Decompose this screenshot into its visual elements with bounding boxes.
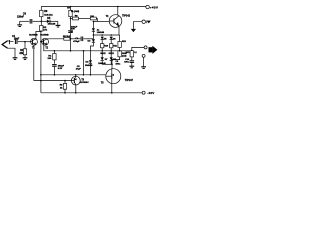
capacitor C7 <box>68 31 73 33</box>
junction chain-mid wire <box>90 74 92 76</box>
diode D5 <box>47 20 50 23</box>
transistor T3 <box>71 76 80 85</box>
wire input to C1 <box>8 40 14 43</box>
svg-text:10µF: 10µF <box>14 39 20 41</box>
wire R4 to C2 <box>53 60 55 64</box>
junction node A <box>41 21 43 23</box>
diode D7 <box>110 37 113 40</box>
wire mid node T5 base <box>41 74 106 76</box>
wire lower emitters join <box>102 63 112 65</box>
capacitor C2 <box>52 65 57 67</box>
junction rail-T4-collector <box>117 6 119 8</box>
wire T1 emitter feedback down <box>34 45 36 81</box>
wire R13a top <box>119 35 121 42</box>
wire node to R4 <box>53 51 55 54</box>
capacitor C4 <box>81 37 83 42</box>
svg-text:R12: R12 <box>122 41 127 43</box>
resistor R6 <box>63 83 66 89</box>
wire R1 to ground <box>24 55 26 58</box>
diode D9 <box>110 57 113 60</box>
wire feedback to T3 base <box>34 80 72 82</box>
resistor R7 <box>69 10 72 16</box>
ground <box>23 58 28 60</box>
junction emitter top <box>111 59 113 61</box>
wire to R1 <box>24 42 26 49</box>
svg-text:6.3V: 6.3V <box>58 68 63 70</box>
junction rail T5 <box>111 92 113 94</box>
wire D7 to R12 <box>110 40 112 44</box>
svg-text:D2: D2 <box>88 40 92 42</box>
svg-text:100: 100 <box>48 58 52 60</box>
terminal output <box>144 46 147 49</box>
wire R8 to R10 <box>79 18 91 20</box>
wire gnd terminal <box>133 22 142 29</box>
resistor R10 <box>90 17 96 20</box>
svg-text:1N4148: 1N4148 <box>97 31 105 34</box>
ground chassis <box>131 29 136 32</box>
svg-text:C6: C6 <box>70 31 74 33</box>
junction R6 <box>64 80 66 82</box>
resistor R14 / L1 <box>130 51 133 57</box>
wire R13a to out <box>119 48 121 51</box>
wire R11 to out <box>101 48 103 51</box>
terminal output return <box>142 54 145 57</box>
wire R9 to node A <box>40 17 42 26</box>
svg-text:-40V: -40V <box>147 91 154 95</box>
wire R5 to C4 <box>70 38 80 40</box>
wire node B to R8 <box>71 18 73 20</box>
junction T3 emitter-mid wire <box>75 74 77 76</box>
wire R6 to rail <box>64 89 66 93</box>
wire C8 to D5 <box>33 20 47 22</box>
svg-text:R5 2k2: R5 2k2 <box>63 36 71 38</box>
wire T5 collector to rail <box>111 84 113 93</box>
resistor R4 <box>53 54 56 60</box>
junction T1 collector node <box>40 31 42 33</box>
wire R3 T2-base vertical down to rail <box>40 31 42 93</box>
terminal GND <box>142 20 145 23</box>
wire to output terminal <box>132 47 144 50</box>
svg-text:0Ω22: 0Ω22 <box>100 53 106 55</box>
capacitor C8 <box>30 19 32 24</box>
junction R13b top <box>119 50 121 52</box>
svg-text:470pF: 470pF <box>73 40 80 43</box>
input connector pin <box>9 40 11 44</box>
junction node B <box>70 18 72 20</box>
junction rail R6 <box>64 92 66 94</box>
wire T1 collector <box>36 32 41 39</box>
wire C7 to node R5 <box>70 33 72 39</box>
svg-text:47k: 47k <box>43 28 47 31</box>
wire to R6 <box>64 81 66 84</box>
transistor T4 <box>109 15 122 28</box>
wire D3 to T5 base wire <box>89 64 91 75</box>
diode D3 <box>89 60 92 63</box>
wire gnd to C8 <box>20 20 30 22</box>
wire D5 right <box>50 20 58 22</box>
junction C2-mid wire <box>54 74 56 76</box>
wire T4 emitter down <box>118 26 120 35</box>
wire R10 to T4 base <box>96 19 97 22</box>
svg-text:T4: T4 <box>106 15 109 18</box>
svg-text:R10: R10 <box>104 45 109 47</box>
transistor T2 <box>42 38 49 45</box>
wire T5 emitter <box>111 60 113 69</box>
junction vertical-mid wire <box>40 74 42 76</box>
wire top +40V rail <box>41 6 146 8</box>
resistor R11 <box>101 44 104 48</box>
ground <box>129 66 134 68</box>
wire terminal to ground <box>143 57 145 66</box>
resistor R8 <box>73 17 79 20</box>
wire out to D8 <box>101 51 103 58</box>
diode D2 <box>92 39 95 42</box>
resistor R9 <box>40 10 43 16</box>
ground <box>141 67 146 69</box>
transistor T1 <box>31 38 38 45</box>
svg-text:1k: 1k <box>60 87 63 89</box>
svg-text:D6: D6 <box>113 39 117 41</box>
resistor R13a <box>118 42 121 48</box>
junction out1 <box>101 50 103 52</box>
wire C4 to bias chain <box>84 38 94 40</box>
output arrow <box>149 46 158 54</box>
junction R5-C7 <box>70 38 72 40</box>
wire bottom -40V rail <box>41 92 142 94</box>
svg-text:100n: 100n <box>116 64 121 66</box>
wire T4 collector to rail <box>118 7 119 16</box>
wire C1 to T1 base <box>18 41 31 43</box>
wire T2 emitter <box>44 45 55 51</box>
diode D8 <box>101 57 104 60</box>
wire output node <box>54 50 131 52</box>
wire T2 collector to R5 <box>47 38 64 40</box>
svg-text:10Ω: 10Ω <box>126 52 130 54</box>
svg-text:220nF: 220nF <box>17 16 24 19</box>
svg-text:100n: 100n <box>124 62 129 64</box>
svg-text:(1Ω): (1Ω) <box>122 56 127 58</box>
junction bootstrap top <box>83 50 85 52</box>
wire R7 to C7 <box>70 17 72 30</box>
junction bootstrap bottom <box>83 74 85 76</box>
resistor R12 <box>110 44 113 48</box>
junction chain-emitter-wire <box>93 34 95 36</box>
svg-text:R9: R9 <box>44 11 48 13</box>
wire to R13a <box>118 34 121 36</box>
diode D6 <box>101 37 104 40</box>
svg-text:D5: D5 <box>104 39 108 41</box>
wire T3 emitter <box>75 75 77 77</box>
wire D8 down <box>101 61 103 64</box>
svg-text:T2: T2 <box>45 48 48 50</box>
wire chain to D1 <box>92 22 94 29</box>
wire out to D9 <box>110 51 112 58</box>
svg-text:BC550B: BC550B <box>40 35 49 37</box>
wire D6 to R11 <box>101 40 103 44</box>
wire emitter node top <box>93 34 119 36</box>
ground <box>56 25 61 27</box>
junction rail-R7 <box>70 6 72 8</box>
svg-text:D7: D7 <box>105 59 109 61</box>
junction out3 <box>119 50 121 52</box>
junction input-R1 <box>24 41 26 43</box>
junction C6-output <box>70 50 72 52</box>
svg-text:2k (1k5): 2k (1k5) <box>71 11 79 13</box>
junction D6 <box>101 34 103 36</box>
ground <box>13 58 18 60</box>
junction T2e-R4 <box>54 50 56 52</box>
wire D9 down <box>110 61 112 64</box>
svg-text:D3: D3 <box>86 62 90 64</box>
wire bootstrap out to mid <box>83 51 85 75</box>
diode D1 <box>92 28 95 31</box>
svg-text:+40V: +40V <box>150 6 158 10</box>
wire C10 to ground <box>131 63 133 67</box>
wire rail to R7 <box>70 7 72 11</box>
wire down to ground <box>57 21 59 25</box>
transistor T5 <box>106 69 121 84</box>
terminal +40V <box>146 5 149 8</box>
wire T3 collector to rail <box>75 85 77 93</box>
ground <box>17 25 22 27</box>
wire R13b to T5 emitter <box>112 57 120 60</box>
resistor R1 <box>23 49 26 55</box>
junction D7 <box>110 34 112 36</box>
svg-text:L1: L1 <box>134 52 137 54</box>
wire D1 to D2 <box>92 32 94 40</box>
wire L1 to C10 <box>131 57 133 61</box>
junction chain top <box>93 21 95 23</box>
terminal -40V <box>142 91 145 94</box>
svg-text:TIP142: TIP142 <box>122 15 131 18</box>
input connector <box>2 41 8 48</box>
svg-text:BC560C: BC560C <box>80 82 89 84</box>
svg-text:R4: R4 <box>48 55 52 58</box>
junction out2 <box>110 50 112 52</box>
junction rail T3 <box>75 92 77 94</box>
junction vertical-T3base <box>40 80 42 82</box>
junction out-zobel <box>131 50 133 52</box>
resistor R13b <box>118 51 121 57</box>
wire C6 column to output <box>70 39 72 51</box>
svg-text:0Ω22: 0Ω22 <box>109 53 115 55</box>
ground glyph <box>147 20 151 23</box>
capacitor C1 <box>15 39 17 44</box>
resistor R5 <box>64 37 70 40</box>
wire base T4 <box>93 21 109 23</box>
svg-text:T5: T5 <box>101 82 104 84</box>
svg-text:47µF: 47µF <box>76 67 82 70</box>
svg-text:1k8 (1k): 1k8 (1k) <box>44 15 52 17</box>
svg-text:1N4148: 1N4148 <box>48 23 56 26</box>
svg-text:TIP147: TIP147 <box>125 79 134 82</box>
wire R12 to out <box>110 48 112 51</box>
wire rail to R9 <box>40 7 42 11</box>
wire C2 down <box>53 66 55 75</box>
junction T2 base <box>40 41 42 43</box>
junction T5 emitter mid <box>111 64 113 66</box>
svg-text:R11: R11 <box>113 45 118 47</box>
capacitor C10 <box>130 61 135 63</box>
wire down to ground <box>19 21 21 24</box>
wire input shield to ground <box>8 48 15 57</box>
resistor R3 <box>40 25 43 31</box>
wire D2 to D3 jog <box>90 43 93 60</box>
svg-text:1N4148: 1N4148 <box>85 64 93 67</box>
svg-text:BC550B: BC550B <box>29 35 38 37</box>
